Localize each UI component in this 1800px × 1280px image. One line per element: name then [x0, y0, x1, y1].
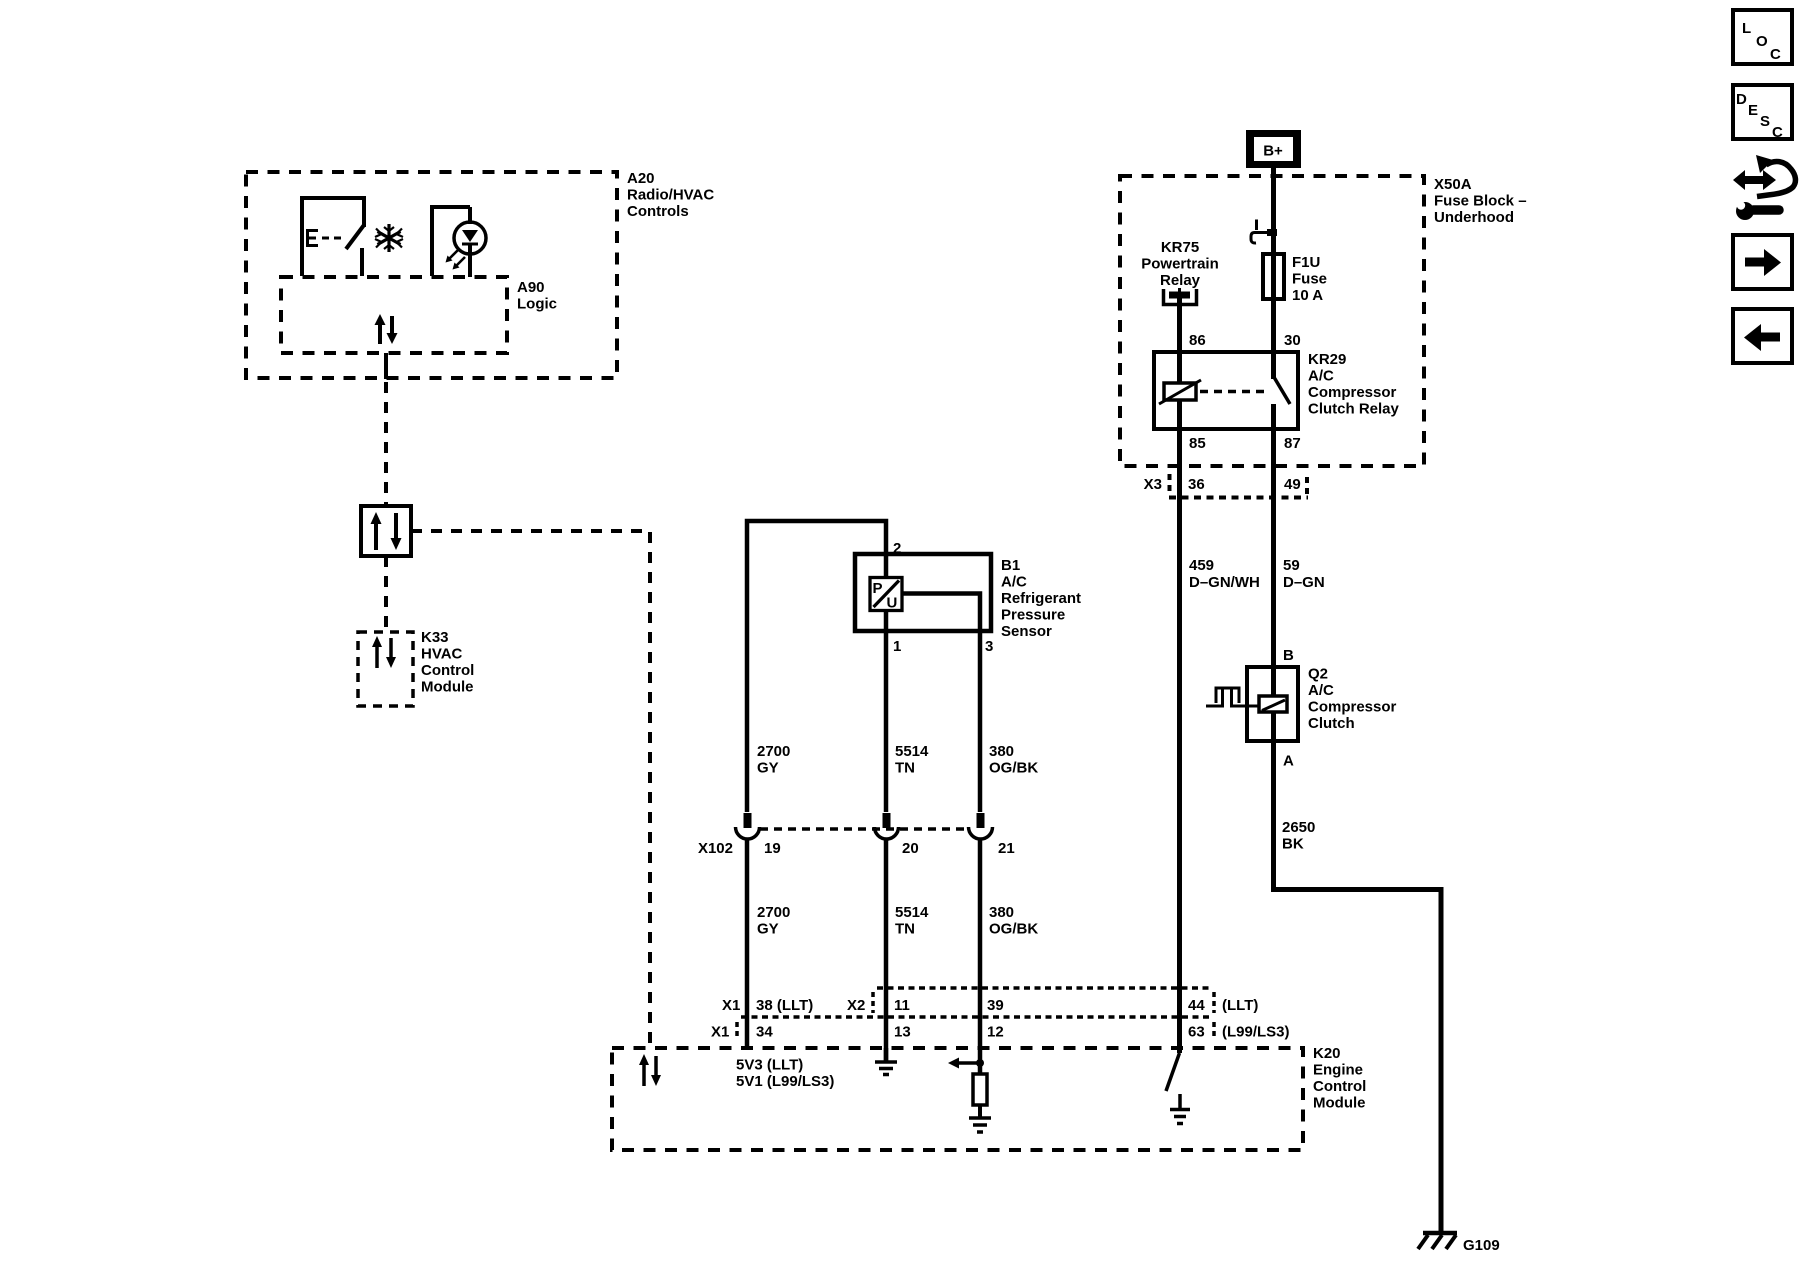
svg-text:X1: X1: [722, 997, 740, 1014]
switch to ground (ECM pin 63): [1166, 1053, 1190, 1124]
svg-text:Compressor: Compressor: [1308, 384, 1397, 401]
svg-text:O: O: [1756, 33, 1768, 50]
component Q2 A/C Compressor Clutch box: [1247, 667, 1298, 741]
svg-text:34: 34: [756, 1024, 773, 1041]
svg-text:A20: A20: [627, 170, 655, 187]
svg-text:D–GN/WH: D–GN/WH: [1189, 574, 1260, 591]
wire 2700 GY (lower): [745, 839, 750, 1048]
wire 2650 BK (Q2 pin A to G109): [1274, 712, 1442, 1233]
sense arrow and resistor to ground (ECM pin 12): [948, 1058, 991, 1133]
svg-text:Sensor: Sensor: [1001, 623, 1052, 640]
wire label 459 D-GN/WH: [1189, 557, 1260, 591]
label Q2 A/C Compressor Clutch: [1308, 666, 1397, 733]
serial data arrows (K20 ECM): [639, 1054, 661, 1086]
svg-text:F1U: F1U: [1292, 254, 1320, 271]
svg-text:2700: 2700: [757, 743, 790, 760]
fuse F1U 10 A: [1263, 254, 1284, 299]
svg-text:KR29: KR29: [1308, 351, 1346, 368]
label pin 85: [1189, 435, 1206, 452]
label pin 21: [998, 840, 1015, 857]
svg-text:380: 380: [989, 743, 1014, 760]
label pin 86: [1189, 332, 1206, 349]
component A90 Logic dashed box: [281, 277, 507, 353]
svg-text:380: 380: [989, 904, 1014, 921]
label pin 1: [893, 638, 901, 655]
snowflake icon: [375, 224, 403, 252]
wire KR75 to KR29 coil (pin 86): [1177, 298, 1182, 383]
label pin 49: [1284, 476, 1301, 493]
svg-text:K20: K20: [1313, 1045, 1341, 1062]
svg-text:X3: X3: [1144, 476, 1162, 493]
svg-text:19: 19: [764, 840, 781, 857]
label pin 3: [985, 638, 993, 655]
wire B+ to fuse F1U: [1271, 168, 1276, 256]
svg-text:44: 44: [1188, 997, 1205, 1014]
svg-text:85: 85: [1189, 435, 1206, 452]
label G109: [1463, 1237, 1500, 1254]
svg-text:Radio/HVAC: Radio/HVAC: [627, 187, 714, 204]
dashed serial data wire A20 to data link box: [384, 382, 388, 506]
svg-text:3: 3: [985, 638, 993, 655]
KR29 coil-contact dashed link: [1200, 390, 1266, 394]
wire label 2700 GY (lower): [757, 904, 790, 938]
label pin 20: [902, 840, 919, 857]
wire label 380 OG/BK (lower): [989, 904, 1038, 938]
serial data arrows (A90 logic): [375, 314, 398, 344]
svg-text:10 A: 10 A: [1292, 287, 1323, 304]
svg-text:2700: 2700: [757, 904, 790, 921]
label pin 36: [1188, 476, 1205, 493]
svg-text:12: 12: [987, 1024, 1004, 1041]
KR29 relay coil: [1159, 380, 1201, 404]
svg-text:G109: G109: [1463, 1237, 1500, 1254]
svg-text:OG/BK: OG/BK: [989, 760, 1038, 777]
svg-text:X50A: X50A: [1434, 176, 1472, 193]
B+ power feed box: [1246, 130, 1301, 168]
svg-text:Module: Module: [421, 679, 474, 696]
label F1U Fuse 10 A: [1292, 254, 1327, 304]
svg-text:(LLT): (LLT): [1222, 997, 1258, 1014]
label KR75 Powertrain Relay: [1141, 239, 1219, 289]
label K33 HVAC Control Module: [421, 629, 474, 696]
label 5V3 (LLT) / 5V1 (L99/LS3): [736, 1057, 834, 1091]
svg-text:Pressure: Pressure: [1001, 607, 1065, 624]
Q2 clutch coil: [1259, 696, 1287, 712]
sidebar icon arrow right: [1733, 235, 1792, 289]
wire 5514 TN (lower): [884, 839, 889, 1062]
svg-text:459: 459: [1189, 557, 1214, 574]
wire 459 D-GN/WH (pin 85 to ECM pin 44/63): [1177, 400, 1182, 1053]
wire label 5514 TN (lower): [895, 904, 929, 938]
connector row X2 (LLT) dashed box: [741, 988, 1214, 1017]
label pin A: [1283, 753, 1294, 770]
svg-text:39: 39: [987, 997, 1004, 1014]
svg-text:GY: GY: [757, 760, 779, 777]
svg-text:Clutch: Clutch: [1308, 715, 1355, 732]
component K20 Engine Control Module dashed box: [612, 1048, 1303, 1150]
svg-text:P: P: [873, 580, 883, 597]
wire B1 pin 3 (380 OG/BK): [902, 594, 980, 813]
svg-text:E: E: [1748, 102, 1758, 119]
connector X102 terminal 21: [969, 813, 993, 839]
label pin 19: [764, 840, 781, 857]
svg-text:(L99/LS3): (L99/LS3): [1222, 1024, 1290, 1041]
svg-text:Module: Module: [1313, 1095, 1366, 1112]
label A20 Radio/HVAC Controls: [627, 170, 714, 220]
svg-text:OG/BK: OG/BK: [989, 921, 1038, 938]
sidebar icon DESC: [1733, 85, 1792, 141]
svg-text:X102: X102: [698, 840, 733, 857]
svg-text:30: 30: [1284, 332, 1301, 349]
wire label 2650 BK: [1282, 819, 1315, 853]
svg-text:A90: A90: [517, 279, 545, 296]
svg-text:59: 59: [1283, 557, 1300, 574]
wire label 59 D-GN: [1283, 557, 1325, 591]
component X50A Fuse Block Underhood dashed box: [1120, 176, 1424, 466]
wire label 5514 TN (upper): [895, 743, 929, 777]
wire B1 pin 1 (5514 TN): [884, 611, 889, 812]
svg-text:KR75: KR75: [1161, 239, 1199, 256]
svg-text:Underhood: Underhood: [1434, 209, 1514, 226]
svg-text:11: 11: [894, 997, 910, 1014]
svg-text:Engine: Engine: [1313, 1062, 1363, 1079]
svg-text:Powertrain: Powertrain: [1141, 256, 1219, 273]
svg-text:Fuse: Fuse: [1292, 271, 1327, 288]
svg-text:Logic: Logic: [517, 296, 557, 313]
switch S (A/C request switch inside A20): [302, 198, 364, 276]
svg-text:TN: TN: [895, 921, 915, 938]
wire B1 pin 2 loop (2700 GY top): [747, 521, 886, 812]
serial data link box: [361, 506, 411, 556]
svg-text:13: 13: [894, 1024, 911, 1041]
svg-text:HVAC: HVAC: [421, 646, 463, 663]
wire label 380 OG/BK (upper): [989, 743, 1038, 777]
svg-text:BK: BK: [1282, 836, 1304, 853]
connector X102 terminal 19: [736, 813, 760, 839]
svg-text:D: D: [1736, 91, 1747, 108]
wire 59 D-GN (pin 87 to Q2 pin B): [1271, 404, 1276, 696]
component K33 HVAC Control Module dashed box: [358, 632, 413, 706]
sidebar icon arrow left: [1733, 309, 1792, 363]
label X3: [1144, 476, 1162, 493]
wire label 2700 GY (upper): [757, 743, 790, 777]
svg-text:Control: Control: [421, 662, 474, 679]
serial data arrows (K33): [372, 636, 396, 668]
fuse block bus tap symbol: [1251, 220, 1277, 244]
PWM square wave symbol: [1206, 688, 1259, 706]
svg-text:21: 21: [998, 840, 1015, 857]
svg-text:86: 86: [1189, 332, 1206, 349]
label pin B: [1283, 647, 1294, 664]
svg-text:A/C: A/C: [1308, 368, 1334, 385]
svg-text:5514: 5514: [895, 743, 929, 760]
label X102: [698, 840, 733, 857]
svg-text:A: A: [1283, 753, 1294, 770]
svg-text:GY: GY: [757, 921, 779, 938]
label pin 87: [1284, 435, 1301, 452]
connector X102 terminal 20: [875, 813, 899, 839]
svg-text:Relay: Relay: [1160, 272, 1201, 289]
svg-text:5V1 (L99/LS3): 5V1 (L99/LS3): [736, 1073, 834, 1090]
svg-text:X1: X1: [711, 1024, 729, 1041]
ground (ECM pin 13): [875, 1048, 897, 1075]
svg-text:Controls: Controls: [627, 203, 689, 220]
svg-text:K33: K33: [421, 629, 449, 646]
dashed serial data wire to K33: [384, 556, 388, 632]
ground G109 (chassis): [1418, 1233, 1457, 1249]
svg-text:Fuse Block –: Fuse Block –: [1434, 193, 1527, 210]
svg-text:Q2: Q2: [1308, 666, 1328, 683]
svg-text:Refrigerant: Refrigerant: [1001, 590, 1081, 607]
svg-text:B+: B+: [1263, 143, 1283, 160]
svg-text:D–GN: D–GN: [1283, 574, 1325, 591]
svg-text:A/C: A/C: [1308, 682, 1334, 699]
svg-text:1: 1: [893, 638, 901, 655]
sidebar icon LOC: [1733, 10, 1792, 64]
P/U pressure transducer symbol: [870, 578, 902, 612]
labels connector row 2: X1 34 13 12 63 (L99/LS3): [711, 1022, 1290, 1041]
svg-text:Clutch Relay: Clutch Relay: [1308, 401, 1400, 418]
label pin 2: [893, 540, 901, 557]
svg-text:X2: X2: [847, 997, 865, 1014]
svg-text:49: 49: [1284, 476, 1301, 493]
svg-text:Control: Control: [1313, 1078, 1366, 1095]
svg-text:A/C: A/C: [1001, 574, 1027, 591]
svg-text:L: L: [1742, 20, 1751, 37]
sidebar icon wrench with arrows: [1733, 155, 1795, 220]
svg-text:B1: B1: [1001, 557, 1020, 574]
svg-text:C: C: [1770, 46, 1781, 63]
labels connector row 1: X1 38 (LLT) X2 11 39 44 (LLT): [722, 997, 1258, 1014]
connector X102 dashed line: [760, 827, 968, 831]
label KR29 A/C Compressor Clutch Relay: [1308, 351, 1400, 418]
svg-text:38 (LLT): 38 (LLT): [756, 997, 813, 1014]
dashed serial data wire to K20 ECM (right branch): [411, 531, 650, 1048]
component KR29 A/C Compressor Clutch Relay box: [1154, 352, 1298, 429]
label A90 Logic: [517, 279, 557, 313]
label B1 A/C Refrigerant Pressure Sensor: [1001, 557, 1081, 640]
KR75 relay terminal symbol: [1164, 288, 1197, 305]
svg-text:S: S: [1760, 113, 1770, 130]
label K20 Engine Control Module: [1313, 1045, 1366, 1112]
svg-text:5514: 5514: [895, 904, 929, 921]
connector X3 dashed box: [1169, 474, 1308, 498]
svg-text:5V3 (LLT): 5V3 (LLT): [736, 1057, 803, 1074]
wire fuse to KR29 contact (pin 30): [1271, 299, 1276, 379]
KR29 contact blade: [1275, 378, 1291, 404]
svg-text:U: U: [887, 595, 898, 612]
svg-text:TN: TN: [895, 760, 915, 777]
component A20 Radio/HVAC Controls dashed box: [246, 172, 617, 378]
svg-text:87: 87: [1284, 435, 1301, 452]
component B1 A/C Refrigerant Pressure Sensor box: [855, 554, 991, 631]
LED light-ray arrows: [446, 250, 466, 270]
svg-text:Compressor: Compressor: [1308, 699, 1397, 716]
svg-text:36: 36: [1188, 476, 1205, 493]
label pin 30: [1284, 332, 1301, 349]
svg-text:63: 63: [1188, 1024, 1205, 1041]
wire A90 to A20 edge: [384, 353, 388, 379]
svg-text:2650: 2650: [1282, 819, 1315, 836]
LED indicator symbol (A/C lamp): [432, 207, 486, 277]
wire 380 OG/BK (lower): [978, 839, 983, 1074]
svg-text:20: 20: [902, 840, 919, 857]
svg-text:B: B: [1283, 647, 1294, 664]
label X50A Fuse Block Underhood: [1434, 176, 1527, 226]
svg-text:C: C: [1772, 124, 1783, 141]
